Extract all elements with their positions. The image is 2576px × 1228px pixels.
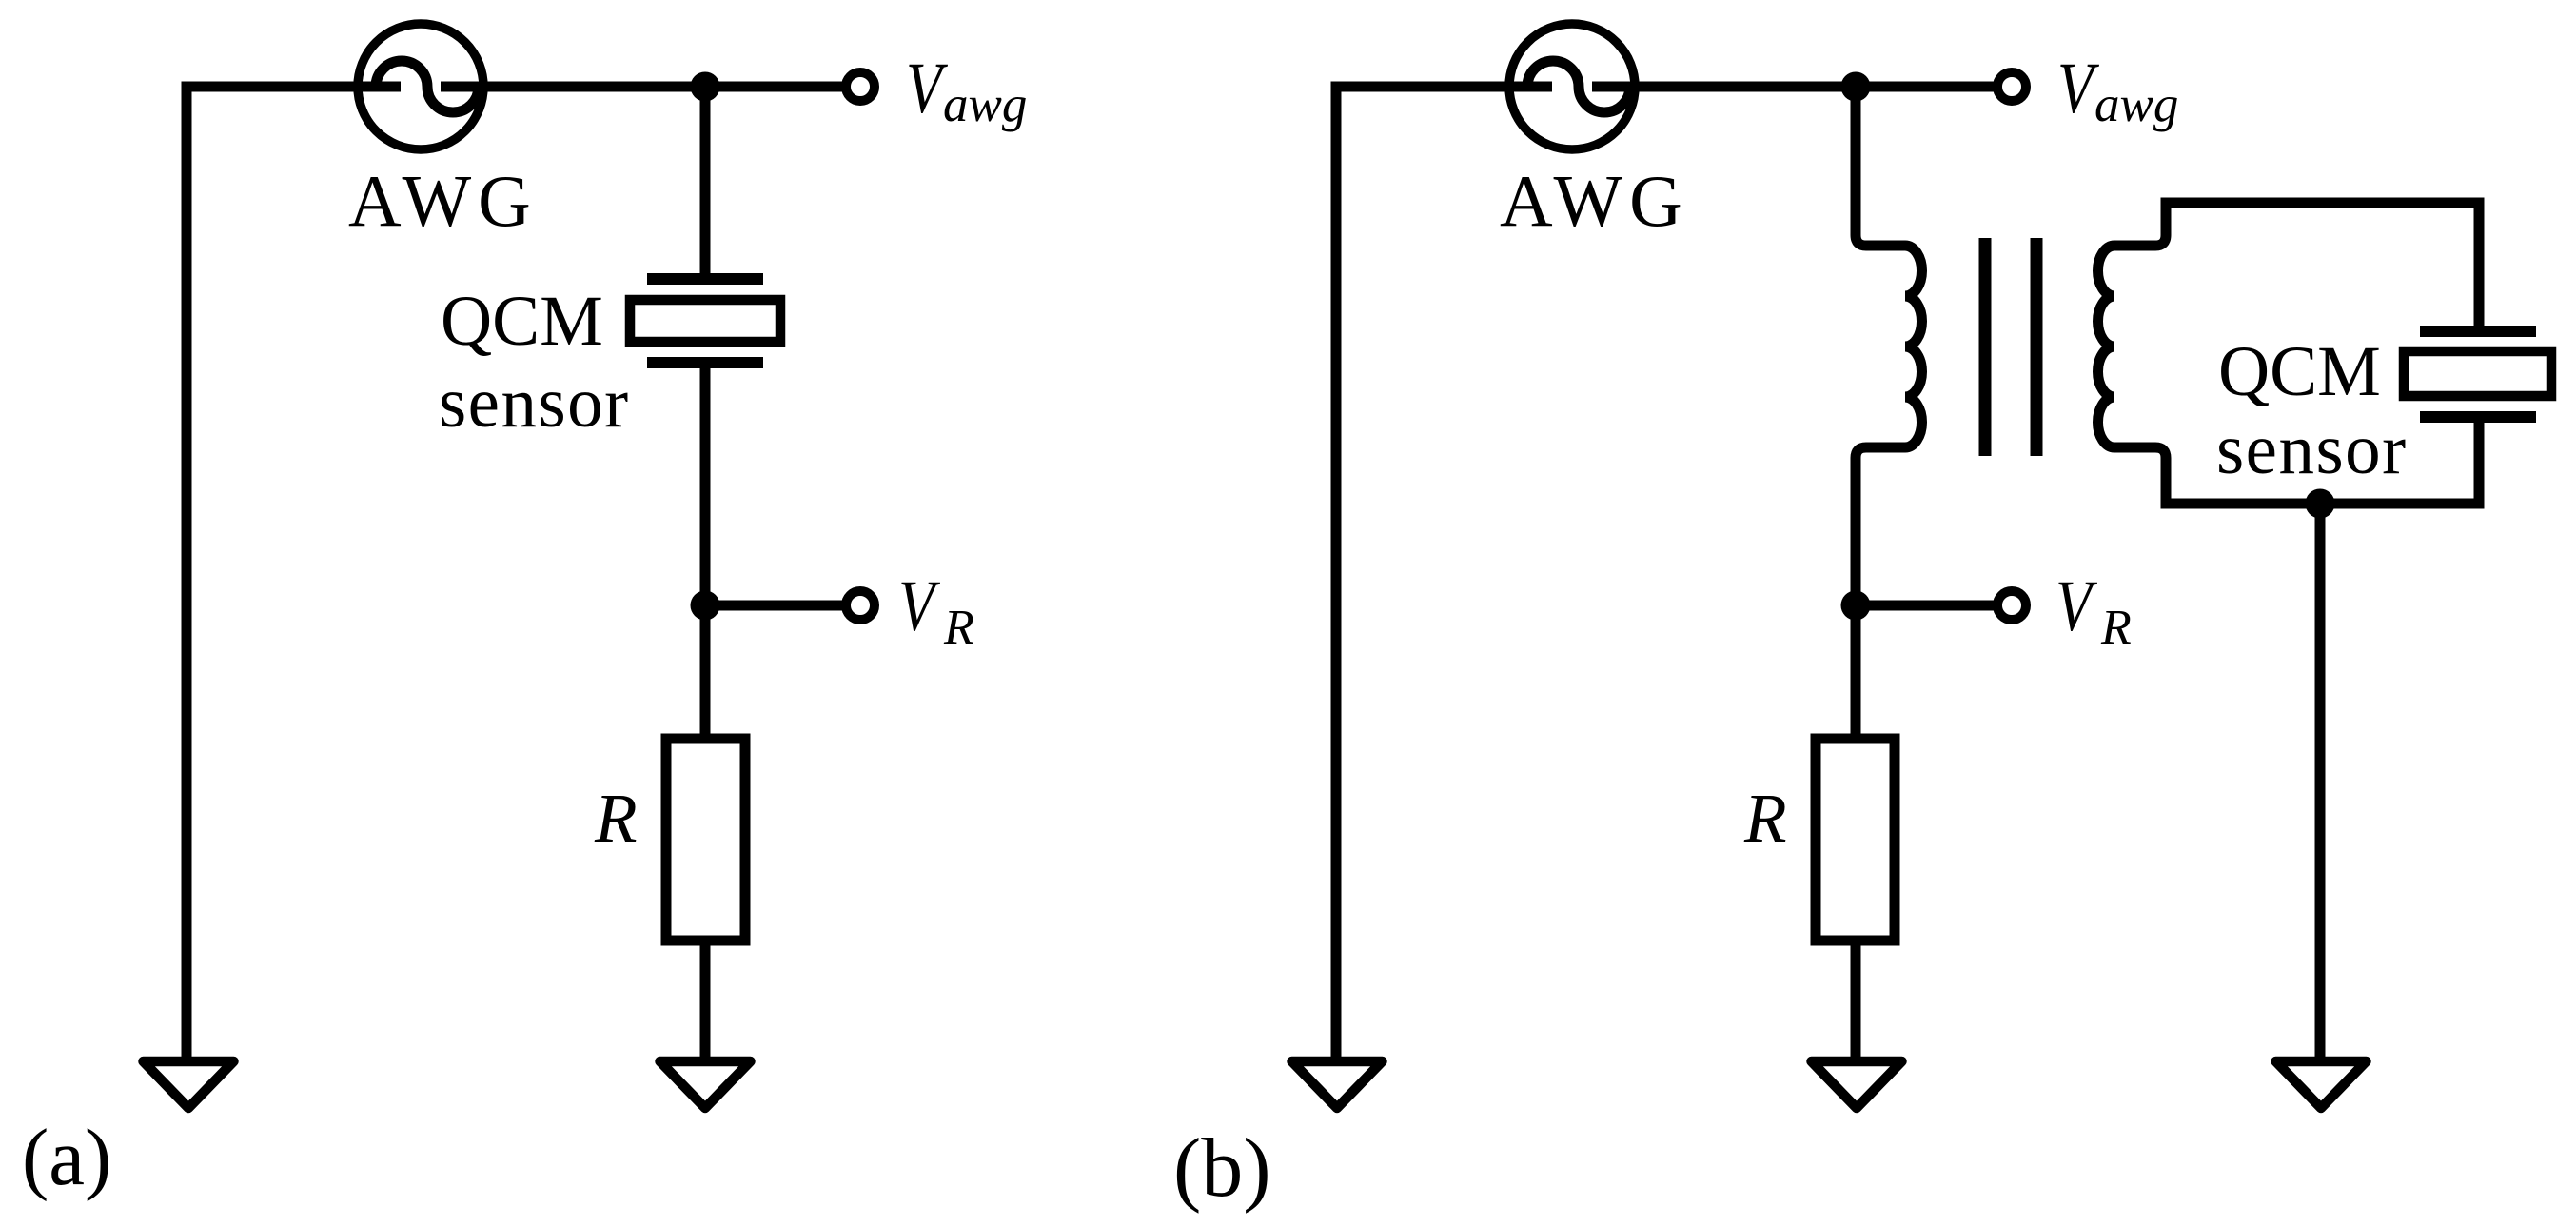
svg-text:AWG: AWG <box>348 160 538 242</box>
svg-text:R: R <box>594 780 638 857</box>
terminal Vawg (a) <box>846 72 875 101</box>
svg-text:sensor: sensor <box>439 364 630 443</box>
AWG sine symbol (b) <box>1509 82 1635 92</box>
ground symbol under R (a) <box>660 1061 751 1108</box>
ground symbol under QCM (b) <box>2276 1061 2367 1108</box>
transformer T1 secondary winding L2 + QCM loop wires (b) <box>2098 203 2480 504</box>
QCM crystal X1 (a): body <box>630 300 780 342</box>
AWG sine symbol (a) <box>358 82 483 92</box>
node VR junction (b) <box>1841 591 1871 621</box>
wire crystal to resistor (a) <box>700 368 711 739</box>
QCM crystal X2 (b): bottom plate <box>2420 411 2536 423</box>
wire VR stub (a) <box>705 601 843 611</box>
resistor R (a) <box>666 739 745 941</box>
QCM crystal X1 (a): bottom plate <box>647 357 763 368</box>
transformer T1 core (b) <box>1985 238 2036 456</box>
svg-text:awg: awg <box>2094 77 2178 132</box>
terminal Vawg (b) <box>1997 72 2026 101</box>
wire: left loop top+left side (a) <box>187 87 843 1076</box>
terminal VR (a) <box>846 591 875 620</box>
AWG source U1 circle (a) <box>358 24 483 149</box>
AWG source U2 circle (b) <box>1509 24 1635 149</box>
svg-text:R: R <box>943 601 974 655</box>
svg-text:R: R <box>2100 601 2132 655</box>
wire VR stub (b) <box>1856 601 1995 611</box>
node junction under QCM (b) <box>2306 489 2335 519</box>
svg-text:awg: awg <box>943 77 1027 132</box>
wire resistor to ground (b) <box>1851 941 1861 1076</box>
svg-text:R: R <box>1743 780 1787 857</box>
ground symbol left (b) <box>1292 1061 1383 1108</box>
label VR (a) <box>898 566 941 646</box>
svg-text:sensor: sensor <box>2216 410 2408 489</box>
wire: left loop top+left side (b) <box>1336 87 1995 1076</box>
label Vawg (b) <box>2057 49 2100 129</box>
node junction top (b) <box>1841 72 1871 102</box>
wire resistor to ground (a) <box>700 941 711 1076</box>
svg-text:QCM: QCM <box>2218 332 2381 411</box>
node junction top (a) <box>691 72 720 102</box>
QCM crystal X2 (b): body <box>2404 351 2551 396</box>
svg-text:(b): (b) <box>1173 1122 1271 1215</box>
svg-text:(a): (a) <box>22 1113 111 1202</box>
svg-text:AWG: AWG <box>1500 160 1689 242</box>
wire junction to ground (b right) <box>2315 504 2326 1076</box>
wire junction to crystal (a) <box>700 87 711 274</box>
ground symbol left (a) <box>144 1061 234 1108</box>
svg-text:QCM: QCM <box>441 282 603 361</box>
QCM crystal X1 (a): top plate <box>647 273 763 285</box>
label Vawg (a) <box>906 49 949 129</box>
node VR junction (a) <box>691 591 720 621</box>
label VR (b) <box>2055 566 2098 646</box>
ground symbol under R (b) <box>1812 1061 1902 1108</box>
QCM crystal X2 (b): top plate <box>2420 326 2536 337</box>
resistor R (b) <box>1816 739 1895 941</box>
transformer T1 primary winding L1 (b) <box>1856 87 1922 739</box>
terminal VR (b) <box>1997 591 2026 620</box>
